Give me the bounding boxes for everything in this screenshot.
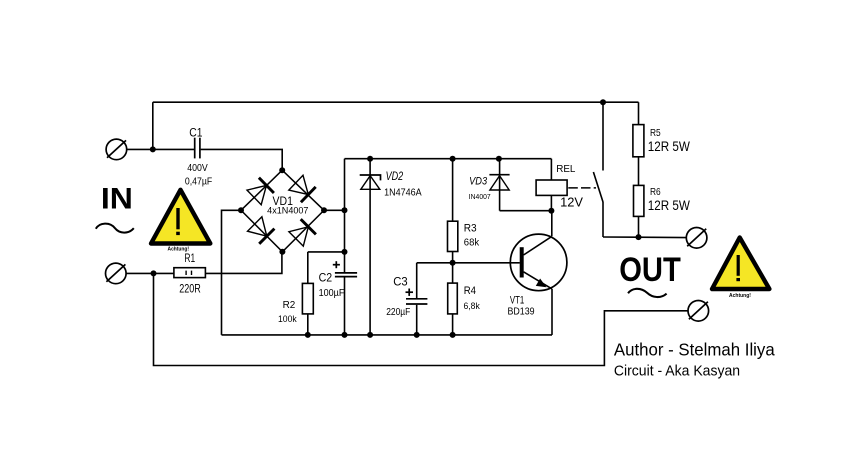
resistor R5	[633, 125, 644, 157]
svg-text:IN4007: IN4007	[469, 194, 491, 201]
svg-text:C2: C2	[319, 273, 333, 285]
wire switch upper lead	[602, 102, 604, 170]
svg-text:220µF: 220µF	[386, 307, 410, 318]
svg-text:0,47µF: 0,47µF	[185, 175, 212, 187]
wire R3 lower lead	[452, 252, 454, 263]
svg-text:220R: 220R	[179, 283, 201, 295]
node VD3 rail junction	[496, 156, 502, 162]
wire C2 column upper	[344, 210, 346, 272]
wire VD3 to relay bottom	[500, 210, 552, 212]
svg-text:4x1N4007: 4x1N4007	[267, 205, 308, 215]
switch contact blade	[593, 172, 603, 202]
svg-text:Achtung!: Achtung!	[729, 293, 751, 299]
svg-text:VD3: VD3	[469, 176, 488, 188]
VD1 diode bottom-right	[289, 219, 316, 246]
node relay collector junction	[548, 208, 554, 214]
wire R6 lower lead	[638, 216, 640, 237]
wire C1 to bridge top	[201, 149, 283, 170]
capacitor C2	[333, 261, 357, 276]
wire C3 lower lead	[416, 305, 418, 335]
wire R1 to bridge bottom	[205, 252, 282, 274]
wire collector riser	[551, 211, 553, 237]
transistor VT1	[510, 234, 567, 291]
svg-text:OUT: OUT	[619, 251, 681, 289]
node VD2 rail junction	[367, 156, 373, 162]
svg-text:Author - Stelmah Iliya: Author - Stelmah Iliya	[614, 339, 775, 359]
svg-text:REL: REL	[556, 164, 576, 175]
wire R5 to R6	[638, 157, 640, 186]
resistor R1	[174, 268, 206, 278]
wire relay upper lead	[550, 159, 552, 180]
wire R2 tap horizontal	[308, 251, 345, 253]
zener diode VD2	[360, 159, 381, 335]
warning triangle left	[151, 190, 210, 253]
wire IN live riser	[152, 102, 154, 149]
node bridge plus right	[321, 207, 327, 213]
svg-text:100µF: 100µF	[319, 287, 345, 299]
relay linkage dashed	[568, 187, 596, 189]
node bridge AC bottom	[279, 249, 285, 255]
wire bridge plus stub	[324, 209, 345, 211]
resistor R4	[448, 283, 458, 314]
wire to OUT plus	[603, 236, 686, 239]
wire second rail	[345, 158, 552, 160]
svg-text:400V: 400V	[187, 162, 208, 174]
svg-text:C1: C1	[189, 128, 202, 140]
svg-text:R1: R1	[184, 253, 195, 265]
svg-text:12R 5W: 12R 5W	[648, 197, 691, 213]
relay REL coil	[536, 180, 567, 195]
wire top rail	[153, 101, 639, 103]
node bridge minus left	[238, 207, 244, 213]
diode VD3	[489, 159, 509, 211]
node C1 tap junction	[150, 146, 156, 152]
svg-text:68k: 68k	[464, 237, 480, 249]
resistor R2	[302, 283, 313, 314]
wire C2 column lower	[344, 277, 346, 335]
svg-text:1N4746A: 1N4746A	[384, 187, 422, 199]
wire IN live to C1	[127, 148, 194, 150]
wire bottom mid rail	[222, 334, 553, 336]
node R2 bottom	[305, 332, 311, 338]
capacitor C1	[195, 138, 200, 159]
node base divider junction	[450, 260, 456, 266]
svg-text:Achtung!: Achtung!	[168, 247, 190, 253]
terminal OUT minus	[688, 301, 709, 322]
svg-text:12R 5W: 12R 5W	[648, 138, 691, 154]
node C3 bottom	[414, 332, 420, 338]
svg-text:C3: C3	[393, 277, 407, 289]
bridge rectifier VD1 diamond	[241, 170, 324, 252]
capacitor C3	[406, 289, 428, 305]
terminal IN neutral	[106, 263, 127, 284]
wire plus column up	[344, 159, 346, 211]
node VD2 bottom	[367, 332, 373, 338]
wire bridge minus to bottom rail	[222, 210, 242, 335]
svg-text:R4: R4	[464, 285, 476, 297]
wire R2 upper lead	[307, 252, 309, 284]
svg-text:IN: IN	[101, 183, 133, 216]
svg-text:6,8k: 6,8k	[464, 301, 481, 312]
wire base line	[417, 262, 520, 264]
svg-text:Circuit - Aka Kasyan: Circuit - Aka Kasyan	[614, 362, 740, 379]
wire switch lower lead	[602, 202, 604, 237]
node bridge AC top	[279, 167, 285, 173]
resistor R3	[448, 221, 458, 251]
resistor R6	[634, 185, 644, 216]
node OUT return tap	[151, 270, 157, 276]
wire C3 upper lead	[416, 263, 418, 298]
svg-text:BD139: BD139	[508, 307, 535, 318]
node R6 bottom junction	[636, 234, 642, 240]
VD1 diode top-right	[289, 175, 316, 202]
wire R4 lower lead	[452, 314, 454, 335]
node R2 tap	[342, 249, 348, 255]
warning triangle right	[712, 238, 769, 299]
svg-text:R3: R3	[464, 223, 477, 235]
terminal OUT plus	[686, 228, 707, 249]
wire bottom rail	[154, 273, 689, 365]
IN ac wave	[96, 224, 134, 233]
node R3 rail junction	[450, 156, 456, 162]
wire relay lower lead	[550, 195, 552, 210]
wire R4 upper lead	[452, 263, 454, 283]
OUT ac wave	[628, 289, 667, 297]
wire R2 lower lead	[307, 314, 309, 335]
wire R5 upper lead	[638, 102, 640, 124]
VD1 diode bottom-left	[248, 217, 275, 244]
node C2 bottom	[342, 332, 348, 338]
node switch rail junction	[600, 99, 606, 105]
node plus column	[342, 207, 348, 213]
wire R3 upper lead	[452, 159, 454, 222]
node R4 bottom	[450, 332, 456, 338]
svg-text:VT1: VT1	[510, 294, 524, 306]
wire IN neutral to R1	[126, 272, 174, 274]
wire emitter down	[551, 289, 553, 335]
terminal IN live	[106, 139, 127, 160]
svg-text:R2: R2	[283, 299, 296, 311]
svg-text:VD2: VD2	[386, 171, 404, 183]
svg-text:100k: 100k	[278, 314, 297, 324]
svg-text:12V: 12V	[560, 195, 583, 210]
VD1 diode top-left	[247, 178, 274, 205]
